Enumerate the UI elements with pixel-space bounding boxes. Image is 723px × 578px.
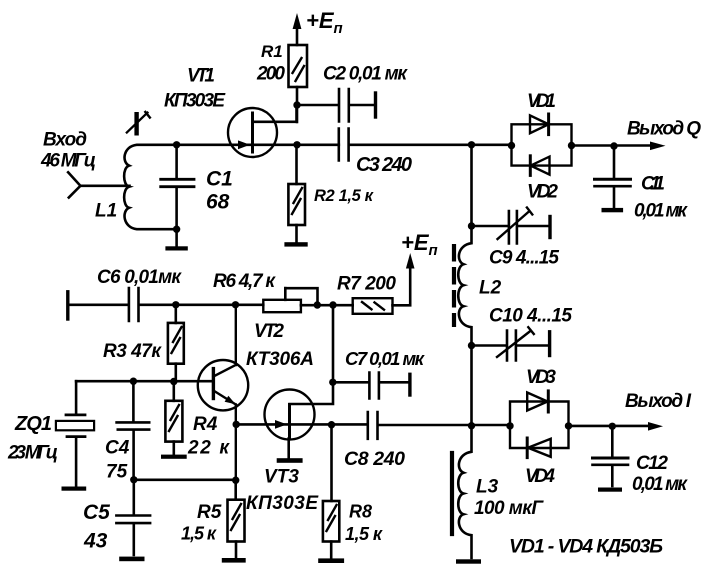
svg-text:Вход: Вход [43, 130, 87, 151]
svg-text:1,5 к: 1,5 к [181, 524, 217, 544]
svg-text:КП303Е: КП303Е [164, 91, 226, 112]
svg-text:C9 4...15: C9 4...15 [489, 248, 559, 269]
svg-text:75: 75 [106, 462, 128, 483]
svg-text:68: 68 [206, 191, 230, 214]
svg-text:C3 240: C3 240 [356, 154, 412, 176]
svg-text:L3: L3 [476, 477, 499, 498]
svg-text:R4: R4 [193, 414, 218, 435]
svg-text:46 МГц: 46 МГц [40, 151, 96, 172]
svg-text:22 к: 22 к [187, 438, 230, 459]
svg-text:C12: C12 [636, 453, 668, 474]
svg-text:VD4: VD4 [525, 466, 555, 487]
svg-text:R8: R8 [349, 502, 372, 522]
svg-text:VD1: VD1 [527, 91, 556, 112]
svg-text:C11: C11 [641, 174, 665, 195]
svg-text:VD2: VD2 [527, 182, 558, 203]
svg-text:ZQ1: ZQ1 [14, 413, 52, 435]
svg-text:C10 4...15: C10 4...15 [489, 306, 572, 327]
svg-text:C1: C1 [206, 168, 233, 191]
svg-text:200: 200 [256, 64, 285, 85]
svg-text:L2: L2 [479, 278, 502, 299]
svg-text:C7 0,01 мк: C7 0,01 мк [345, 348, 426, 369]
svg-text:C2 0,01 мк: C2 0,01 мк [323, 64, 408, 85]
svg-text:23 МГц: 23 МГц [7, 443, 58, 464]
svg-text:VT3: VT3 [264, 467, 299, 488]
svg-text:0,01 мк: 0,01 мк [632, 474, 688, 495]
svg-text:C4: C4 [105, 438, 130, 459]
svg-text:КП303Е: КП303Е [246, 493, 319, 514]
svg-text:R1: R1 [261, 42, 283, 61]
svg-text:Выход Q: Выход Q [627, 119, 701, 140]
svg-text:1,5 к: 1,5 к [345, 524, 383, 544]
svg-text:VD1 - VD4 КД503Б: VD1 - VD4 КД503Б [509, 536, 663, 558]
svg-text:VT2: VT2 [254, 321, 284, 342]
svg-text:R7 200: R7 200 [337, 274, 396, 295]
svg-text:VT1: VT1 [187, 66, 215, 87]
svg-text:R2 1,5 к: R2 1,5 к [314, 187, 375, 205]
svg-text:R5: R5 [197, 502, 222, 523]
svg-text:КТ306А: КТ306А [246, 349, 314, 370]
svg-text:C5: C5 [83, 501, 110, 524]
svg-text:C8 240: C8 240 [344, 448, 405, 470]
svg-text:0,01 мк: 0,01 мк [634, 201, 688, 222]
svg-text:Выход I: Выход I [625, 391, 692, 412]
svg-text:R3 47к: R3 47к [103, 341, 162, 362]
svg-text:L1: L1 [95, 201, 117, 222]
svg-text:R6 4,7 к: R6 4,7 к [213, 271, 276, 292]
svg-text:100 мкГ: 100 мкГ [474, 498, 544, 519]
svg-text:VD3: VD3 [526, 367, 556, 388]
svg-text:43: 43 [83, 530, 108, 553]
svg-text:C6 0,01мк: C6 0,01мк [97, 267, 182, 288]
